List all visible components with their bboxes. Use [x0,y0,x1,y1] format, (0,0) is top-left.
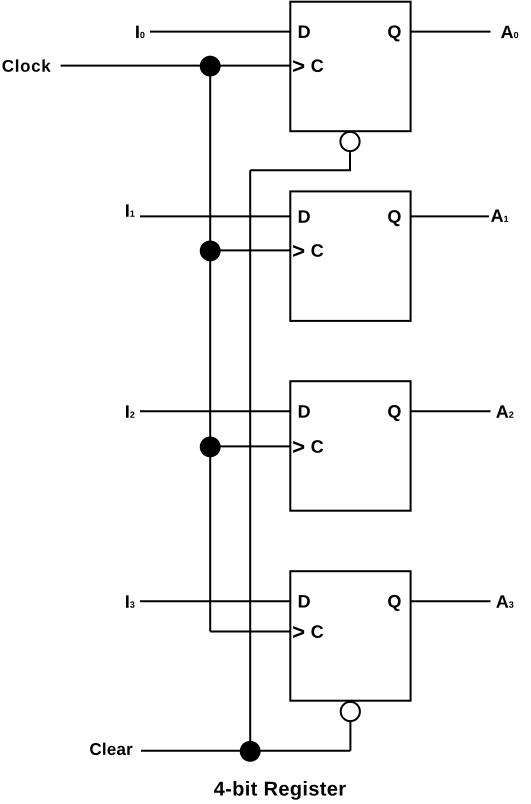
FF1 pin label D [299,210,310,222]
net label A2 [496,405,513,417]
wire I1 to FF1 D [140,215,290,217]
wire clock stub to FF3 C [210,631,290,633]
flip-flop FF3 box [290,571,410,701]
FF3 pin label D [299,595,310,607]
FF1 pin label Q [388,210,401,226]
net label I3 [126,595,134,607]
net label I2 [126,405,134,417]
FF3 clear bubble [341,702,360,721]
wire Clear input [141,750,350,752]
wire FF1 Q to A1 [411,215,489,217]
caption 4-bit Register [214,781,346,800]
FF3 clock wedge [293,626,304,638]
FF0 clear bubble [340,132,359,151]
wire clock vertical bus [209,66,211,632]
wire FF2 Q to A2 [411,410,491,412]
net label A0 [501,26,518,38]
wire FF3 bubble stem [349,721,351,751]
FF2 pin label D [299,405,310,417]
wire I3 to FF3 D [140,600,290,602]
wire clear vertical bus [249,170,251,751]
flip-flop FF2 box [290,381,410,511]
flip-flop FF1 box [290,191,410,321]
node clock junction at FF2 C [200,436,221,457]
wire FF0 Q to A0 [411,31,491,33]
wire clock stub to FF2 C [210,445,290,447]
net label A1 [491,210,508,222]
FF1 clock wedge [293,245,304,257]
net label Clear [90,743,132,755]
FF3 pin label C [311,625,323,638]
FF0 pin label D [299,26,310,38]
node clock junction at Clock line [200,56,221,77]
net label I0 [136,26,144,38]
wire Clock to FF0 C [61,65,291,67]
FF2 pin label C [311,440,323,453]
wire FF0 bubble stem to clear bus [250,152,350,170]
FF2 clock wedge [293,441,304,453]
FF0 pin label Q [388,25,401,41]
wire FF3 Q to A3 [411,600,491,602]
flip-flop FF0 box [290,2,410,132]
node clock junction at FF1 C [200,240,221,261]
wire I2 to FF2 D [140,410,290,412]
FF2 pin label Q [388,405,401,421]
wire clock stub to FF1 C [210,249,290,251]
net label Clock [3,59,51,71]
net label A3 [496,595,513,607]
wire I0 to FF0 D [150,31,290,33]
FF0 clock wedge [293,60,304,72]
FF0 pin label C [311,59,323,72]
node clear junction [240,741,261,762]
net label I1 [126,204,135,216]
FF3 pin label Q [388,595,401,611]
FF1 pin label C [311,244,323,257]
